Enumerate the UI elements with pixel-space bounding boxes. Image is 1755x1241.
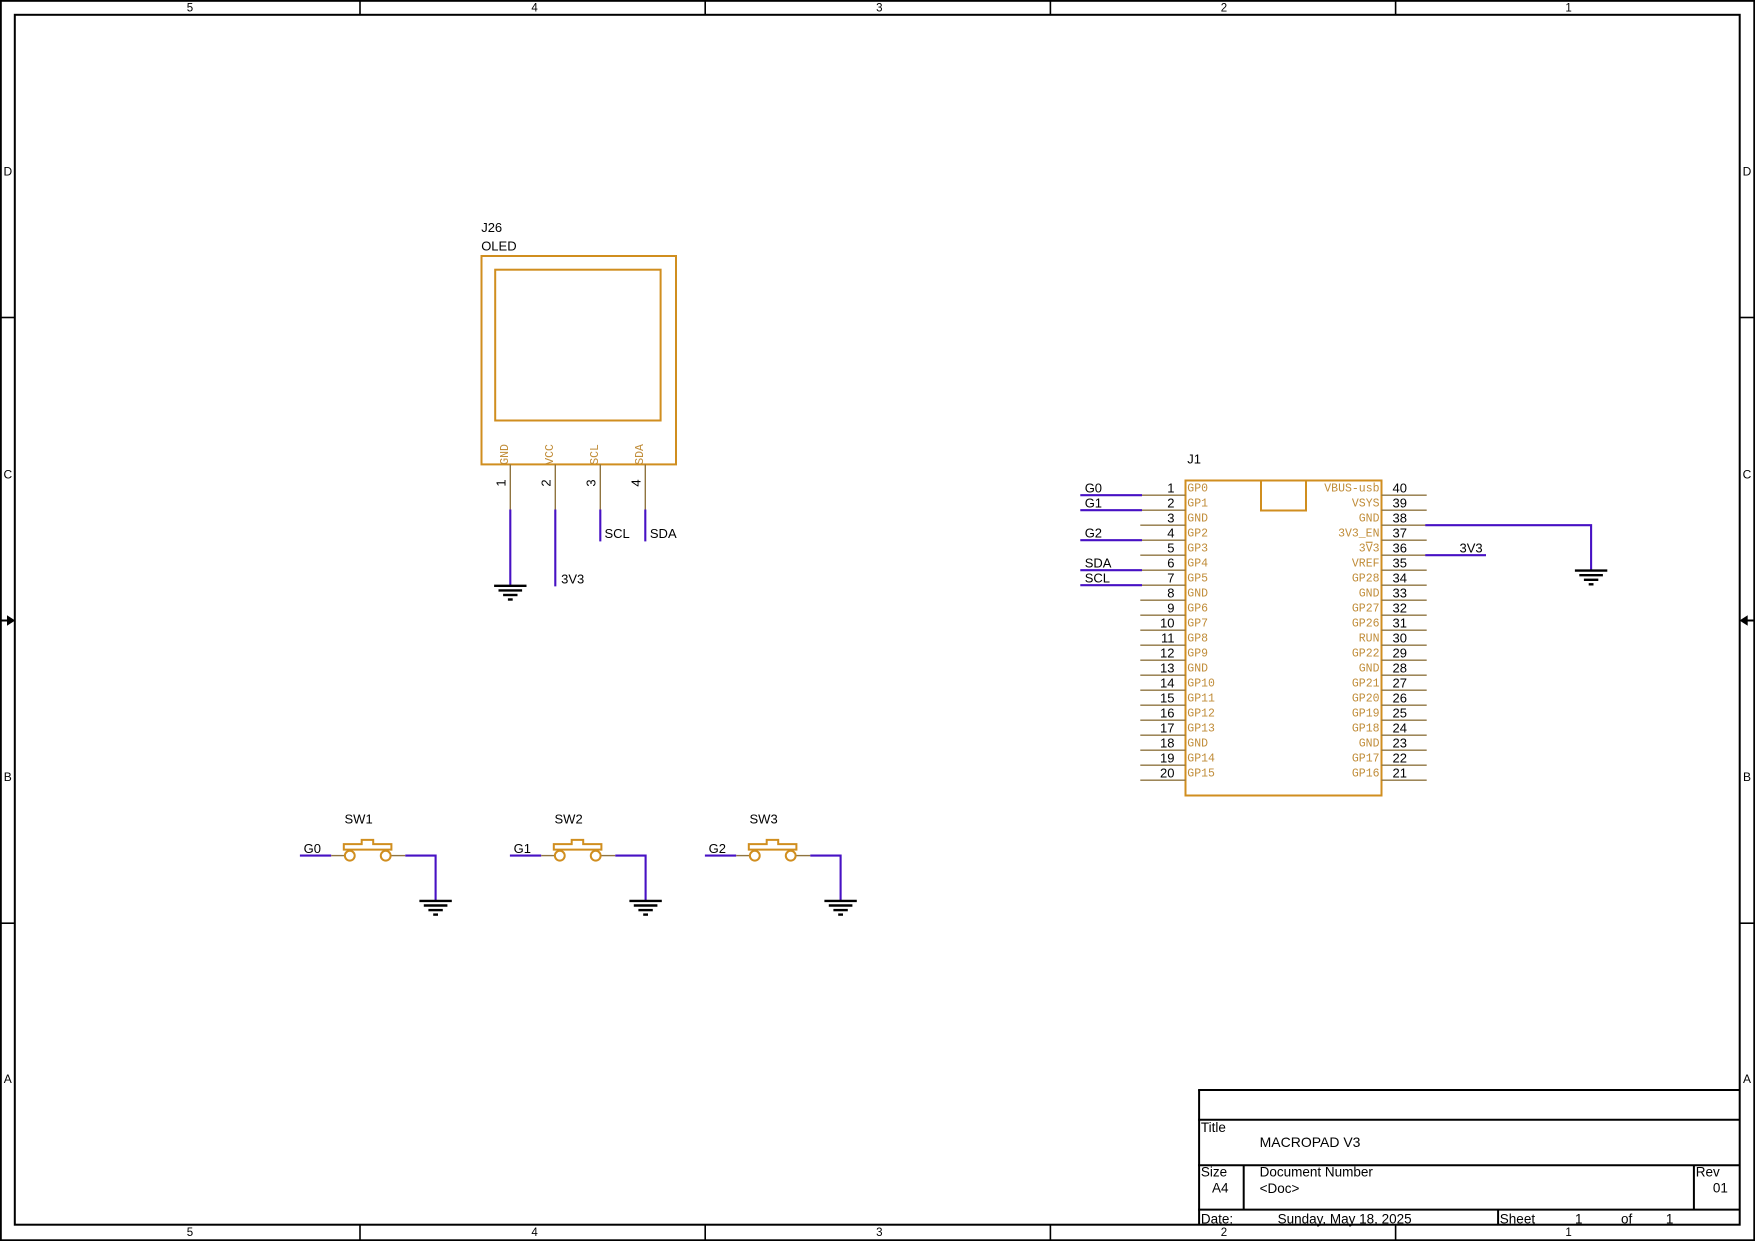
J1 pin 10 (GP7)	[1140, 616, 1208, 631]
svg-text:GP12: GP12	[1187, 708, 1215, 721]
connector J26 OLED body	[482, 256, 677, 464]
wire from J1 pin 36 (3V3)	[1425, 554, 1486, 556]
wire from J26 pin 3 (SCL)	[599, 510, 601, 542]
svg-text:Size: Size	[1201, 1165, 1227, 1180]
J1 pin 40 (VBUS-usb)	[1324, 481, 1426, 496]
svg-text:GP10: GP10	[1187, 678, 1215, 691]
svg-text:GND: GND	[499, 444, 512, 465]
J1 pin 2 (GP1)	[1140, 496, 1208, 511]
svg-text:GND: GND	[1187, 513, 1208, 526]
svg-text:Sunday, May 18, 2025: Sunday, May 18, 2025	[1278, 1211, 1412, 1226]
svg-text:21: 21	[1393, 766, 1407, 781]
svg-text:RUN: RUN	[1359, 633, 1380, 646]
svg-text:23: 23	[1393, 736, 1407, 751]
svg-text:GP20: GP20	[1352, 693, 1380, 706]
svg-text:3V3: 3V3	[1460, 541, 1483, 556]
svg-text:35: 35	[1393, 556, 1407, 571]
svg-text:C: C	[1743, 468, 1752, 482]
svg-text:C: C	[3, 468, 12, 482]
svg-text:GP3: GP3	[1187, 543, 1208, 556]
J1 pin 25 (GP19)	[1352, 706, 1427, 721]
svg-text:13: 13	[1160, 661, 1174, 676]
ground symbol at J26 pin 1	[494, 586, 526, 600]
J1 pin 30 (RUN)	[1359, 631, 1427, 646]
connector J1 body	[1186, 481, 1382, 796]
svg-text:Sheet: Sheet	[1500, 1211, 1536, 1226]
svg-text:15: 15	[1160, 691, 1174, 706]
svg-text:GND: GND	[1187, 663, 1208, 676]
J1 pin 9 (GP6)	[1140, 601, 1208, 616]
svg-text:1: 1	[1666, 1211, 1674, 1226]
J1 pin 16 (GP12)	[1140, 706, 1215, 721]
svg-text:1: 1	[1565, 2, 1571, 14]
svg-text:11: 11	[1161, 631, 1175, 646]
svg-text:MACROPAD V3: MACROPAD V3	[1260, 1134, 1361, 1150]
svg-text:GP7: GP7	[1187, 618, 1208, 631]
svg-text:VCC: VCC	[544, 444, 557, 465]
J1 pin 13 (GND)	[1140, 661, 1208, 676]
svg-text:SW1: SW1	[345, 811, 373, 826]
svg-text:G0: G0	[304, 841, 321, 856]
J1 pin 19 (GP14)	[1140, 751, 1215, 766]
J1 pin 15 (GP11)	[1140, 691, 1215, 706]
svg-text:29: 29	[1393, 646, 1407, 661]
wire net SCL at J1 pin 7	[1080, 584, 1142, 586]
wire from J26 pin 2 (3V3)	[554, 510, 556, 587]
svg-text:2: 2	[1221, 1227, 1227, 1239]
ground symbol at SW2	[629, 901, 661, 915]
svg-text:12: 12	[1160, 646, 1174, 661]
J1 pin 39 (VSYS)	[1352, 496, 1427, 511]
J1 pin 12 (GP9)	[1140, 646, 1208, 661]
svg-text:Date:: Date:	[1201, 1211, 1233, 1226]
svg-text:J26: J26	[481, 220, 502, 235]
svg-text:SDA: SDA	[650, 526, 677, 541]
svg-text:D: D	[1743, 165, 1752, 179]
svg-text:J1: J1	[1187, 452, 1201, 467]
svg-text:3: 3	[1167, 511, 1174, 526]
svg-text:GND: GND	[1187, 588, 1208, 601]
svg-text:20: 20	[1160, 766, 1174, 781]
J1 pin 29 (GP22)	[1352, 646, 1427, 661]
svg-text:17: 17	[1160, 721, 1174, 736]
svg-text:GP22: GP22	[1352, 648, 1380, 661]
J1 pin 14 (GP10)	[1140, 676, 1215, 691]
J1 pin 8 (GND)	[1140, 586, 1208, 601]
svg-text:SW3: SW3	[750, 811, 778, 826]
wire net G2 at J1 pin 4	[1080, 539, 1142, 541]
svg-text:G1: G1	[1085, 496, 1102, 511]
J1 pin 33 (GND)	[1359, 586, 1427, 601]
svg-text:32: 32	[1393, 601, 1407, 616]
J1 pin 23 (GND)	[1359, 736, 1427, 751]
wire net G0 into SW1	[300, 855, 331, 857]
svg-text:G1: G1	[514, 841, 531, 856]
svg-text:GP9: GP9	[1187, 648, 1208, 661]
svg-text:B: B	[4, 770, 12, 784]
svg-text:3V3_EN: 3V3_EN	[1338, 528, 1379, 541]
connector J26 refdes	[481, 220, 516, 254]
svg-text:GND: GND	[1359, 588, 1380, 601]
svg-text:of: of	[1621, 1211, 1633, 1226]
svg-text:GND: GND	[1359, 513, 1380, 526]
svg-text:4: 4	[629, 479, 644, 486]
svg-text:3: 3	[876, 1227, 882, 1239]
svg-text:8: 8	[1167, 586, 1174, 601]
J26 pin 4 (SDA)	[629, 444, 647, 510]
J26 pin 3 (SCL)	[584, 444, 602, 510]
J1 pin 7 (GP5)	[1140, 571, 1208, 586]
svg-text:16: 16	[1160, 706, 1174, 721]
J1 pin 38 (GND)	[1359, 511, 1427, 526]
J26 pin 2 (VCC)	[539, 444, 557, 510]
J1 pin 32 (GP27)	[1352, 601, 1427, 616]
svg-text:3V3: 3V3	[561, 571, 584, 586]
wire SW2 to ground	[615, 856, 645, 901]
J1 pin 22 (GP17)	[1352, 751, 1427, 766]
svg-text:GP26: GP26	[1352, 618, 1380, 631]
svg-text:GP8: GP8	[1187, 633, 1208, 646]
svg-text:34: 34	[1393, 571, 1407, 586]
svg-text:GP21: GP21	[1352, 678, 1380, 691]
svg-text:GP14: GP14	[1187, 753, 1215, 766]
J1 pin 3 (GND)	[1140, 511, 1208, 526]
svg-text:GP18: GP18	[1352, 723, 1380, 736]
svg-text:6: 6	[1167, 556, 1174, 571]
svg-text:A: A	[1743, 1072, 1751, 1086]
svg-text:GND: GND	[1359, 738, 1380, 751]
svg-text:GP11: GP11	[1187, 693, 1215, 706]
J1 pin 4 (GP2)	[1140, 526, 1208, 541]
svg-text:SDA: SDA	[1085, 556, 1112, 571]
wire from J1 pin 38 (GND) to ground	[1425, 525, 1591, 570]
svg-text:22: 22	[1393, 751, 1407, 766]
svg-text:10: 10	[1160, 616, 1174, 631]
svg-text:A4: A4	[1212, 1180, 1229, 1195]
J1 pin 35 (VREF)	[1352, 556, 1427, 571]
svg-text:SCL: SCL	[605, 526, 630, 541]
svg-text:33: 33	[1393, 586, 1407, 601]
svg-text:9: 9	[1167, 601, 1174, 616]
svg-text:1: 1	[1575, 1211, 1583, 1226]
svg-text:27: 27	[1393, 676, 1407, 691]
J1 pin 1 (GP0)	[1140, 481, 1208, 496]
svg-text:GP0: GP0	[1187, 483, 1208, 496]
J1 pin 27 (GP21)	[1352, 676, 1427, 691]
svg-text:4: 4	[1167, 526, 1174, 541]
svg-text:GP5: GP5	[1187, 573, 1208, 586]
svg-text:39: 39	[1393, 496, 1407, 511]
svg-text:Rev: Rev	[1696, 1165, 1720, 1180]
svg-text:2: 2	[539, 479, 554, 486]
wire from J26 pin 4 (SDA)	[644, 510, 646, 542]
svg-text:<Doc>: <Doc>	[1260, 1181, 1300, 1196]
svg-text:40: 40	[1393, 481, 1407, 496]
wire net G0 at J1 pin 1	[1080, 494, 1142, 496]
svg-text:3: 3	[876, 2, 882, 14]
svg-text:GP13: GP13	[1187, 723, 1215, 736]
svg-text:SCL: SCL	[1085, 571, 1110, 586]
title block	[1198, 1090, 1740, 1226]
svg-text:Title: Title	[1201, 1120, 1226, 1135]
svg-text:37: 37	[1393, 526, 1407, 541]
svg-text:G2: G2	[709, 841, 726, 856]
svg-text:1: 1	[1167, 481, 1174, 496]
J1 pin 34 (GP28)	[1352, 571, 1427, 586]
ground symbol at J1 pin 38	[1575, 571, 1607, 585]
svg-text:30: 30	[1393, 631, 1407, 646]
J1 pin 17 (GP13)	[1140, 721, 1215, 736]
J1 pin 31 (GP26)	[1352, 616, 1427, 631]
svg-text:25: 25	[1393, 706, 1407, 721]
svg-text:5: 5	[187, 1227, 193, 1239]
wire net SDA at J1 pin 6	[1080, 569, 1142, 571]
J1 pin 20 (GP15)	[1140, 766, 1215, 781]
svg-text:GP19: GP19	[1352, 708, 1380, 721]
J1 pin 28 (GND)	[1359, 661, 1427, 676]
svg-text:18: 18	[1160, 736, 1174, 751]
svg-text:GP6: GP6	[1187, 603, 1208, 616]
svg-text:G2: G2	[1085, 526, 1102, 541]
ground symbol at SW1	[419, 901, 451, 915]
svg-text:SW2: SW2	[555, 811, 583, 826]
wire from J26 pin 1 to ground	[509, 510, 511, 586]
J1 pin 18 (GND)	[1140, 736, 1208, 751]
svg-text:SDA: SDA	[634, 444, 647, 465]
switch SW2 body	[541, 840, 615, 861]
svg-text:GND: GND	[1359, 663, 1380, 676]
svg-text:7: 7	[1167, 571, 1174, 586]
J1 pin 11 (GP8)	[1140, 631, 1208, 646]
svg-text:24: 24	[1393, 721, 1407, 736]
svg-text:VBUS-usb: VBUS-usb	[1324, 483, 1379, 496]
J1 pin 24 (GP18)	[1352, 721, 1427, 736]
wire SW3 to ground	[810, 856, 840, 901]
svg-text:1: 1	[1565, 1227, 1571, 1239]
svg-text:GP17: GP17	[1352, 753, 1380, 766]
J1 pin 5 (GP3)	[1140, 541, 1208, 556]
svg-text:2: 2	[1221, 2, 1227, 14]
svg-text:4: 4	[531, 1227, 538, 1239]
switch SW3 body	[736, 840, 810, 861]
svg-text:4: 4	[531, 2, 538, 14]
svg-text:SCL: SCL	[589, 444, 602, 465]
svg-text:OLED: OLED	[481, 239, 516, 254]
svg-text:31: 31	[1393, 616, 1407, 631]
J1 pin 21 (GP16)	[1352, 766, 1427, 781]
svg-text:VSYS: VSYS	[1352, 498, 1380, 511]
svg-text:GP4: GP4	[1187, 558, 1208, 571]
switch SW1 body	[331, 840, 405, 861]
svg-text:36: 36	[1393, 541, 1407, 556]
svg-text:28: 28	[1393, 661, 1407, 676]
svg-text:14: 14	[1160, 676, 1174, 691]
svg-text:GP15: GP15	[1187, 768, 1215, 781]
svg-text:GP1: GP1	[1187, 498, 1208, 511]
svg-text:G0: G0	[1085, 481, 1102, 496]
svg-text:Document Number: Document Number	[1260, 1165, 1374, 1180]
svg-text:GP28: GP28	[1352, 573, 1380, 586]
svg-text:3: 3	[584, 479, 599, 486]
J1 pin 37 (3V3_EN)	[1338, 526, 1427, 541]
J26 pin 1 (GND)	[494, 444, 512, 510]
svg-text:3V3: 3V3	[1359, 543, 1380, 556]
svg-text:GP27: GP27	[1352, 603, 1380, 616]
svg-text:26: 26	[1393, 691, 1407, 706]
svg-text:GND: GND	[1187, 738, 1208, 751]
wire net G2 into SW3	[705, 855, 736, 857]
wire SW1 to ground	[405, 856, 435, 901]
svg-text:01: 01	[1713, 1180, 1728, 1195]
svg-text:VREF: VREF	[1352, 558, 1380, 571]
svg-text:5: 5	[1167, 541, 1174, 556]
J1 pin 26 (GP20)	[1352, 691, 1427, 706]
svg-text:D: D	[3, 165, 12, 179]
ground symbol at SW3	[824, 901, 856, 915]
svg-text:B: B	[1743, 770, 1751, 784]
svg-text:5: 5	[187, 2, 193, 14]
svg-text:1: 1	[494, 479, 509, 486]
J1 pin 6 (GP4)	[1140, 556, 1208, 571]
svg-text:GP16: GP16	[1352, 768, 1380, 781]
svg-text:A: A	[4, 1072, 12, 1086]
svg-text:19: 19	[1160, 751, 1174, 766]
wire net G1 into SW2	[510, 855, 541, 857]
svg-text:GP2: GP2	[1187, 528, 1208, 541]
wire net G1 at J1 pin 2	[1080, 509, 1142, 511]
svg-text:2: 2	[1167, 496, 1174, 511]
svg-text:38: 38	[1393, 511, 1407, 526]
J1 pin 36 (3V3)	[1359, 541, 1427, 556]
